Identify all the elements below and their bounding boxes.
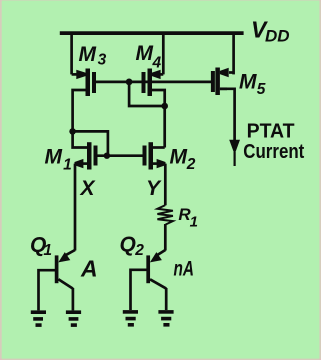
svg-text:M: M (136, 42, 154, 65)
label M3 (79, 43, 107, 69)
label PTAT Current (243, 121, 304, 163)
svg-text:A: A (80, 256, 98, 282)
wire M4 diode connection loop (129, 82, 165, 106)
svg-text:4: 4 (152, 54, 162, 71)
svg-text:PTAT: PTAT (247, 121, 295, 143)
wire M5 source from VDD rail (232, 33, 235, 74)
svg-text:3: 3 (98, 52, 107, 69)
edge artifact bottom (0, 359, 321, 360)
svg-text:Q: Q (120, 233, 136, 256)
wire M1 source down to Q1 (node X) (74, 164, 77, 251)
node dot gate M3/M4 (126, 79, 133, 86)
edge artifact top (0, 0, 321, 2)
svg-text:nA: nA (174, 257, 195, 280)
svg-text:5: 5 (257, 81, 266, 98)
wire M4 drain down (152, 90, 165, 148)
label M1 (45, 146, 72, 174)
wire M2 top lead (153, 146, 165, 149)
wire common gate line M3-M4-M5 (94, 81, 213, 84)
svg-text:DD: DD (265, 27, 290, 46)
edge artifact left (0, 0, 2, 360)
label M5 (239, 71, 266, 99)
label M2 (170, 146, 196, 174)
svg-text:Y: Y (146, 177, 162, 200)
label VDD (251, 17, 290, 46)
transistor M2 (145, 142, 166, 169)
resistor R1 (157, 205, 173, 250)
node A dot (69, 128, 76, 135)
wire M3 drain down to node A (73, 90, 86, 131)
label R1 (178, 205, 198, 230)
ground symbol under Q2 collector (158, 312, 173, 325)
wire M4 source from VDD rail (162, 33, 165, 74)
edge artifact right (319, 0, 321, 360)
label M4 (136, 42, 162, 71)
svg-text:M: M (239, 71, 257, 94)
ground symbol under Q2 base (123, 312, 138, 325)
wire M2 source down to R1 (node Y) (164, 164, 167, 206)
transistor Q2 (131, 250, 167, 310)
transistor M5 (213, 68, 234, 96)
node dot M4 drain (161, 103, 168, 110)
transistor M1 (75, 142, 96, 169)
svg-text:X: X (80, 177, 97, 200)
label Q2 (120, 233, 145, 259)
svg-text:2: 2 (186, 156, 196, 173)
wire node A to M1 gate (73, 131, 108, 155)
ground symbol under Q1 base (31, 312, 46, 325)
svg-text:Current: Current (243, 141, 304, 163)
svg-text:1: 1 (190, 213, 198, 230)
wire M3 source from VDD rail (70, 33, 73, 74)
svg-text:M: M (79, 43, 97, 66)
VDD power rail (60, 31, 244, 35)
svg-text:1: 1 (63, 156, 72, 173)
wire M1 top lead (73, 131, 87, 147)
svg-text:M: M (170, 146, 188, 169)
node dot M1 gate (104, 153, 110, 159)
label Q1 (30, 234, 52, 259)
PTAT current output arrow (229, 140, 240, 166)
svg-text:M: M (45, 146, 63, 169)
transistor M4 (144, 69, 164, 97)
transistor Q1 (39, 250, 76, 310)
wire M5 drain down (220, 89, 235, 141)
transistor M3 (72, 69, 94, 97)
svg-text:1: 1 (43, 242, 52, 259)
svg-text:2: 2 (134, 242, 144, 259)
wire M1-M2 gate line (98, 154, 143, 157)
ground symbol under Q1 collector (66, 312, 81, 325)
